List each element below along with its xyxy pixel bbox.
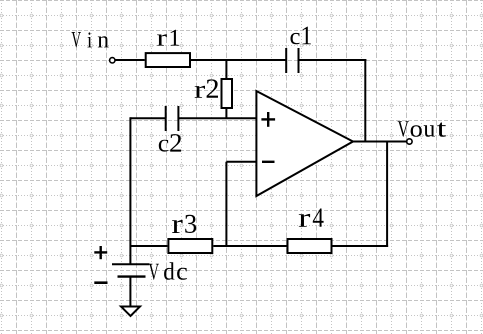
wire c1 right plate to feedback corner (299, 59, 367, 61)
wire battery to ground lead (129, 277, 131, 307)
capacitor c2 plates (166, 106, 179, 131)
capacitor c1 plates (286, 48, 298, 73)
battery minus sign (94, 281, 107, 284)
wire feedback vertical down to output node (364, 59, 366, 142)
Vin terminal pin (110, 58, 115, 63)
battery plus sign (94, 246, 107, 259)
ground symbol (121, 307, 140, 317)
label r2 (195, 79, 218, 97)
Vout terminal pin (407, 139, 412, 144)
wire r2 bottom lead (225, 109, 227, 118)
wire left vertical rail (129, 117, 131, 264)
resistor r4 (288, 239, 332, 253)
label Vin (71, 32, 108, 47)
resistor r1 (146, 53, 190, 67)
label Vout (398, 121, 447, 137)
wire battery rail to r3 left (130, 245, 167, 247)
label c1 (291, 27, 311, 45)
label c2 (159, 134, 181, 152)
op-amp minus input marker (262, 161, 275, 163)
wire inverting input wire (226, 161, 256, 163)
label r3 (172, 215, 196, 233)
wire noninverting input wire (178, 117, 256, 119)
resistor r2 (222, 79, 233, 108)
wire r2 top lead (225, 60, 227, 78)
op-amp triangle (256, 91, 353, 196)
label r1 (157, 30, 179, 46)
wire op-amp output to Vout terminal (353, 141, 407, 143)
battery Vdc long plate (112, 263, 149, 265)
wire r3 right to r4 left (213, 245, 286, 247)
op-amp plus input marker (261, 112, 275, 127)
wire output node down to r4 right (386, 142, 388, 248)
label r4 (299, 208, 324, 226)
wire r4 right lead (333, 245, 389, 247)
wire r1 right to c1 left plate (191, 59, 286, 61)
wire c2 left lead (130, 117, 165, 119)
battery Vdc short plate (118, 275, 146, 277)
label Vdc (149, 262, 187, 279)
wire inverting input down to bottom rail (225, 162, 227, 247)
resistor r3 (168, 239, 212, 253)
wire Vin terminal to r1 left (115, 59, 144, 61)
